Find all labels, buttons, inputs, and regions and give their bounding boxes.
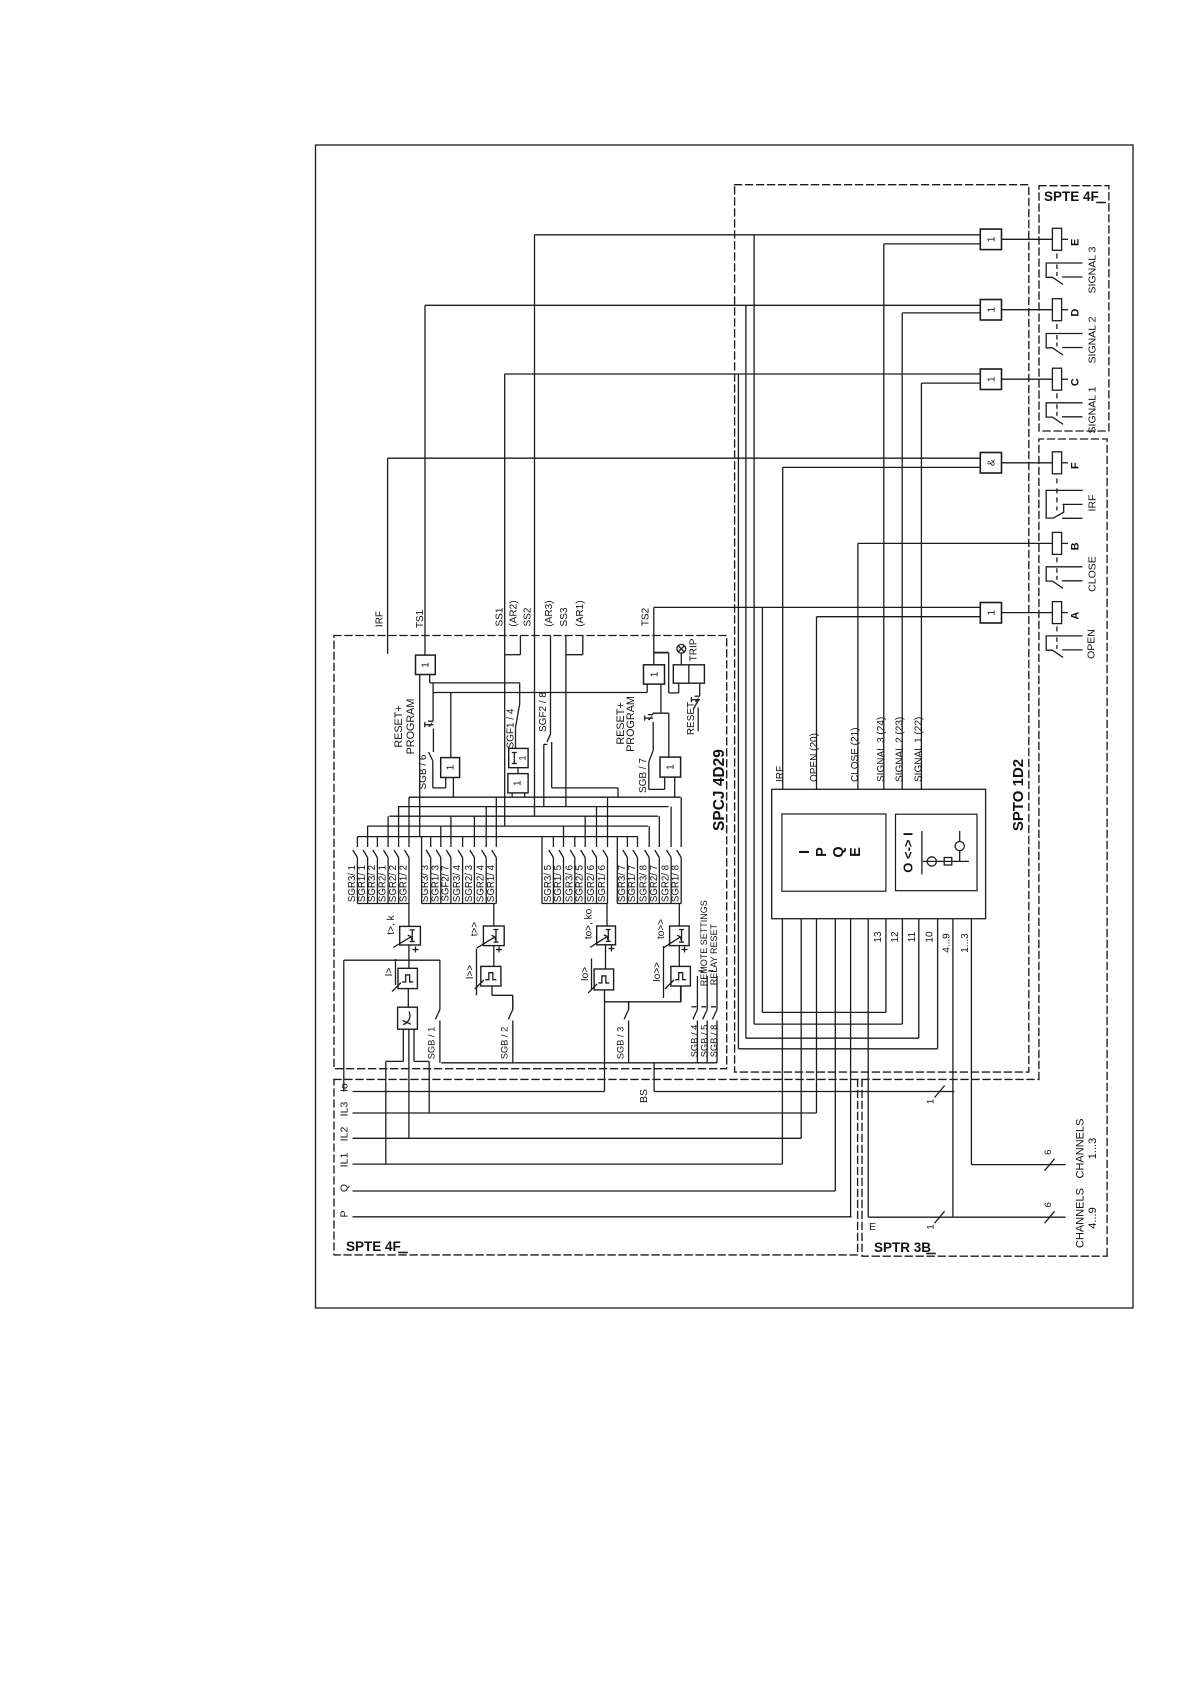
svg-text:OPEN (20): OPEN (20) — [809, 733, 820, 782]
svg-text:SPCJ 4D29: SPCJ 4D29 — [711, 749, 728, 831]
wired join group 3 bottom — [542, 903, 608, 905]
switch SGR3/7 (group 4) with stub, blade, label line — [626, 837, 628, 847]
svg-text:SGR2/ 7: SGR2/ 7 — [649, 865, 660, 902]
SPTO bottom pin to IL3 wire — [816, 919, 818, 1113]
wire riser SS1 down to bus L4 — [504, 374, 506, 826]
wire Io riser from Io wire — [604, 990, 606, 1092]
wires SGF1 block outputs to fan line L1 — [511, 793, 513, 797]
svg-text:SPTE 4F: SPTE 4F — [1044, 189, 1099, 204]
svg-text:SGB / 8: SGB / 8 — [709, 1025, 719, 1058]
block SGF1 minimum pulse (I-beam + 1) — [509, 748, 528, 767]
svg-text:PROGRAM: PROGRAM — [405, 699, 417, 755]
svg-text:to>, ko: to>, ko — [584, 908, 595, 939]
block SPTO object control section O <-> I — [896, 814, 978, 891]
svg-text:C: C — [1070, 378, 1082, 386]
svg-text:1: 1 — [513, 780, 524, 786]
svg-text:Q: Q — [831, 846, 847, 857]
block stage I>> operate time t>> (adjustable) — [483, 926, 504, 946]
wire Io>> chain links — [678, 904, 680, 927]
wire Io> chain links — [606, 904, 608, 927]
svg-text:RESET+: RESET+ — [393, 705, 405, 747]
module boundary SPTO 1D2 (dashed box) — [735, 185, 1029, 1072]
connector F (IRF relay coil) (plug symbol) — [1052, 452, 1061, 474]
svg-text:IL1: IL1 — [339, 1153, 351, 1168]
switch SGB / 2 — [512, 995, 514, 1009]
block stage I> timer (adjustable) — [398, 968, 417, 988]
wire output tap to SGB/3 — [628, 1002, 630, 1010]
object mini-diagram: disconnector square — [944, 858, 952, 866]
module boundary SPTE 4F output board (dashed box, signal relays) — [1039, 186, 1109, 431]
svg-text:SGB / 7: SGB / 7 — [638, 758, 649, 793]
switch SGR2/4 (group 2) with stub, blade, label line — [485, 807, 487, 847]
wire BS to SPTR — [654, 1091, 954, 1093]
svg-text:IRF: IRF — [375, 611, 386, 627]
svg-text:B: B — [1070, 542, 1082, 550]
wire I>> chain links — [493, 904, 495, 927]
wire BS drop from SGB bus — [653, 1063, 655, 1092]
contact SIGNAL 1 (output relay contact) — [1046, 403, 1082, 425]
module boundary SPCJ 4D29 (dashed box) — [334, 636, 727, 1069]
wire SS2 to gate E input 1 — [535, 234, 981, 236]
connector B (CLOSE relay coil) (plug symbol) — [1052, 532, 1061, 554]
svg-text:1: 1 — [649, 671, 660, 677]
svg-text:1: 1 — [666, 764, 677, 770]
wire IRF from SPCJ to gate F input 1 — [388, 457, 981, 459]
block stage Io> operate time to>,ko (adjustable) — [597, 926, 616, 945]
gate U-D OR gate 1 (SIGNAL 2) — [980, 300, 1001, 321]
wire SGB/6 switch to gate — [432, 761, 434, 788]
switch SGR3/4 (group 2) with stub, blade, label line — [462, 837, 464, 847]
gate U-C OR gate 1 (SIGNAL 1) — [980, 369, 1001, 390]
svg-text:SGR2/ 3: SGR2/ 3 — [464, 865, 475, 902]
svg-text:Io>>: Io>> — [652, 962, 663, 982]
switch SGR1/7 (group 4) with stub, blade, label line — [637, 837, 639, 847]
switch SGR2/8 (group 4) with stub, blade, label line — [670, 807, 672, 847]
pushbutton RESET+PROGRAM (right) — [652, 713, 654, 714]
pushbutton RESET (right) — [695, 695, 700, 697]
wired join group 2 bottom — [422, 903, 497, 905]
svg-text:1: 1 — [926, 1099, 937, 1104]
wire IL2 riser — [408, 1029, 410, 1138]
svg-text:REMOTE SETTINGS: REMOTE SETTINGS — [699, 900, 709, 986]
svg-text:SGR1/ 4: SGR1/ 4 — [486, 864, 497, 902]
svg-text:SIGNAL 1 (22): SIGNAL 1 (22) — [914, 717, 925, 782]
block stage I>> timer — [481, 966, 501, 986]
svg-text:P: P — [339, 1210, 351, 1217]
wire SGF2/8 output left branch to fan L2 — [544, 743, 548, 745]
svg-text:SGR1/ 5: SGR1/ 5 — [553, 865, 564, 902]
wire riser IRF stub from SPCJ — [387, 458, 389, 654]
wire TS1 to gate D input 1 — [425, 304, 980, 306]
switch SGR2/1 (group 1) with stub, blade, label line — [387, 816, 389, 847]
switch SGR3/2 (group 1) with stub, blade, label line — [376, 837, 378, 847]
switch SGR1/4 (group 2) with stub, blade, label line — [495, 797, 497, 847]
svg-text:1: 1 — [445, 764, 456, 770]
marker slash 1 on E wire — [935, 1211, 945, 1223]
svg-text:1: 1 — [926, 1224, 937, 1229]
tick marks on SGB/4,5,8 wires — [691, 1006, 696, 1008]
SPTO bottom pin to IL2 wire — [800, 919, 802, 1139]
svg-text:SGB / 6: SGB / 6 — [418, 754, 429, 789]
switch SGF2/7 (group 2) with stub, blade, label line — [450, 816, 452, 847]
svg-text:SGB / 5: SGB / 5 — [699, 1025, 709, 1058]
bus fan line L3 — [389, 815, 658, 817]
wire button stem — [652, 722, 654, 751]
gate U-E OR gate 1 (SIGNAL 3) — [980, 229, 1001, 250]
switch SGR3/8 (group 4) with stub, blade, label line — [648, 826, 650, 847]
switch SGR1/5 (group 3) with stub, blade, label line — [563, 826, 565, 847]
module boundary SPTE 4F input board (dashed box bottom left) — [334, 1079, 858, 1255]
wire TS1 gate pin to fan line L5 — [419, 675, 421, 837]
switch SGB / 3 — [628, 1002, 630, 1010]
wire (AR1) jog to SS3 — [582, 636, 584, 655]
wire IL3 riser — [413, 1029, 415, 1061]
svg-text:SIGNAL 3 (24): SIGNAL 3 (24) — [876, 717, 887, 782]
wire IRF from SPTO to gate F input 2 — [783, 466, 981, 468]
gate SGB/7 OR gate 1 — [660, 757, 681, 777]
svg-text:Io: Io — [339, 1083, 351, 1092]
block stage Io> timer — [594, 969, 614, 990]
svg-text:BS: BS — [638, 1089, 650, 1103]
svg-text:12: 12 — [890, 931, 901, 943]
SPTO bottom pin to P wire — [850, 919, 852, 1217]
switch SGR2/3 (group 2) with stub, blade, label line — [473, 816, 475, 847]
wire gate top input — [450, 693, 452, 758]
switch SGR1/3 (group 2) with stub, blade, label line — [440, 826, 442, 847]
bus fan line L5 — [357, 836, 638, 838]
svg-text:10: 10 — [925, 931, 936, 943]
contact SIGNAL 2 (output relay contact) — [1046, 334, 1082, 356]
SPTO pin 4...9 down to SPTR — [952, 919, 954, 1217]
wire riser SS2 down to bus L3 — [534, 235, 536, 816]
svg-text:t>>: t>> — [470, 922, 481, 937]
svg-text:TS2: TS2 — [641, 607, 652, 626]
switch SGR3/3 (group 2) with stub, blade, label line — [430, 837, 432, 847]
svg-text:6: 6 — [1043, 1150, 1054, 1155]
svg-text:(AR1): (AR1) — [575, 600, 586, 626]
wire BS vertical at left — [343, 960, 345, 1091]
switch SGR2/2 (group 1) with stub, blade, label line — [398, 807, 400, 847]
SPTO bottom pin to Q wire — [834, 919, 836, 1191]
bus fan line L2 — [398, 806, 669, 808]
svg-text:SS2: SS2 — [523, 607, 534, 626]
wire SGB/6 gate output to fan line L1 — [452, 778, 454, 798]
switch SGF2/8 blade — [547, 734, 551, 742]
marker slash 6 on E wire — [1045, 1211, 1055, 1223]
wire TS2 to gate A input 1 — [654, 606, 981, 608]
connector D (SIGNAL 2 relay coil) (plug symbol) — [1052, 299, 1061, 321]
wire bundle riser to SPTO pin 13 — [761, 607, 763, 1012]
svg-text:E: E — [1070, 239, 1082, 246]
svg-text:RESET: RESET — [686, 702, 697, 735]
svg-text:SGR1/ 2: SGR1/ 2 — [399, 865, 410, 902]
wire gate D output to connector D — [1002, 309, 1053, 311]
block stage I> inverse-time characteristic — [398, 1007, 418, 1029]
module boundary SPTE 4F output board part 2 (open dashed box F/B/A) — [1039, 439, 1107, 1256]
svg-text:IRF: IRF — [1087, 495, 1099, 512]
svg-text:I: I — [797, 850, 813, 854]
svg-text:SGR2/ 2: SGR2/ 2 — [388, 865, 399, 902]
svg-text:1...3: 1...3 — [960, 933, 971, 953]
wire (AR2) jog to SS1 — [519, 636, 521, 655]
svg-text:CHANNELS: CHANNELS — [1075, 1119, 1087, 1179]
switch RESET blade — [693, 700, 698, 710]
svg-text:SGR1/ 7: SGR1/ 7 — [627, 865, 638, 902]
svg-text:CLOSE: CLOSE — [1087, 556, 1099, 592]
svg-text:SGR2/ 5: SGR2/ 5 — [575, 865, 586, 902]
wire channels 4...9 / E — [868, 1216, 1065, 1218]
wire button to switch — [432, 729, 434, 753]
switch SGR3/5 (group 3) with stub, blade, label line — [552, 837, 554, 847]
wire SIGNAL3(24) from SPTO to gate E input 2 — [884, 243, 981, 245]
switch RESET+PROGRAM blade (left) — [429, 752, 433, 761]
contact IRF (self-supervision changeover contact) — [1046, 490, 1083, 518]
svg-text:SGR3/ 6: SGR3/ 6 — [564, 865, 575, 902]
wire Io>> output down — [680, 986, 682, 1002]
object mini-diagram: busbar line — [923, 860, 969, 862]
svg-text:A: A — [1070, 612, 1082, 620]
svg-text:1: 1 — [986, 376, 997, 382]
contact OPEN (output relay contact) — [1046, 636, 1082, 658]
block stage Io>> operate time to>> (adjustable) — [670, 926, 690, 946]
svg-text:SIGNAL 2 (23): SIGNAL 2 (23) — [895, 717, 906, 782]
svg-text:SGB / 3: SGB / 3 — [616, 1027, 626, 1060]
svg-text:RELAY RESET: RELAY RESET — [709, 924, 719, 986]
svg-text:P: P — [814, 847, 830, 857]
bus SGB common — [441, 1062, 717, 1064]
wire Io>/Io>> output bar — [605, 1001, 682, 1003]
wire SGB/7 to gate — [648, 762, 650, 790]
svg-text:4...9: 4...9 — [942, 933, 953, 953]
wire gate F output to connector F — [1002, 462, 1053, 464]
svg-text:SIGNAL 3: SIGNAL 3 — [1087, 246, 1099, 293]
wire group 2 left edge line — [421, 837, 423, 904]
svg-text:(AR2): (AR2) — [508, 600, 519, 626]
wire group 4 left edge line — [616, 837, 618, 904]
svg-text:CHANNELS: CHANNELS — [1075, 1188, 1087, 1248]
svg-text:to>>: to>> — [656, 919, 667, 939]
svg-text:IRF: IRF — [775, 766, 786, 782]
wire TS2 branch to trip latch — [654, 652, 669, 654]
switch SGR2/6 (group 3) with stub, blade, label line — [596, 807, 598, 847]
svg-text:SGB / 1: SGB / 1 — [427, 1027, 437, 1060]
svg-text:SS1: SS1 — [495, 607, 506, 626]
svg-text:I>: I> — [384, 968, 395, 977]
wire SGB/7 gate output to fan L1 — [674, 777, 676, 797]
wire SIGNAL2(23) from SPTO to gate D input 2 — [902, 312, 980, 314]
bus fan line L1 — [409, 796, 680, 798]
dashed boundary line between SPCJ/SPTO and bottom boards — [334, 1078, 1039, 1080]
wire riser TS1 down to TS1 gate — [424, 305, 426, 655]
wire gate C output to connector C — [1002, 378, 1053, 380]
svg-text:OPEN: OPEN — [1086, 629, 1098, 659]
svg-text:SGR3/ 4: SGR3/ 4 — [452, 864, 463, 902]
wire bundle riser to SPTO pin 11 — [745, 305, 747, 1038]
wire TS2 gate output to SGB/7 chain — [660, 684, 662, 713]
wired join group 1 bottom — [357, 903, 409, 905]
svg-text:1: 1 — [518, 755, 528, 760]
wire latch reset pin — [699, 683, 701, 696]
wire riser SS3 to fan line L2 — [565, 636, 567, 807]
switch SGR1/8 (group 4) with stub, blade, label line — [680, 797, 682, 847]
contact CLOSE (output relay contact) — [1046, 567, 1082, 589]
svg-text:D: D — [1070, 309, 1082, 317]
svg-text:t>, k: t>, k — [386, 914, 397, 934]
svg-text:O <-> I: O <-> I — [901, 832, 916, 872]
wire SIGNAL1(22) from SPTO to gate C input 2 — [921, 382, 980, 384]
gate U-A OR gate 1 (OPEN) — [980, 603, 1001, 624]
wire group 3 left edge line — [541, 837, 543, 904]
svg-text:TRIP: TRIP — [689, 638, 700, 661]
separator line in O<->I section — [921, 831, 923, 875]
block stage I> operate time t>,k (adjustable) — [400, 926, 421, 945]
switch SGR3/1 (group 1) with stub, blade, label line — [356, 837, 358, 847]
switch SGR1/1 (group 1) with stub, blade, label line — [367, 826, 369, 847]
wire stub (AR3) down to SGF2/8 switch — [550, 636, 552, 735]
svg-text:SS3: SS3 — [559, 607, 570, 626]
switch SGR1/6 (group 3) with stub, blade, label line — [607, 797, 609, 847]
SPTO bottom pin to IL1 wire — [781, 919, 783, 1164]
connector E (SIGNAL 3 relay coil) (plug symbol) — [1052, 228, 1061, 250]
wire channels 1...3 — [971, 1164, 1065, 1166]
wire SGB/7 bar — [653, 712, 669, 714]
wire bundle riser to SPTO pin 12 — [753, 235, 755, 1024]
svg-text:SPTO 1D2: SPTO 1D2 — [1010, 759, 1027, 831]
block trip latch (double box) — [673, 665, 704, 683]
svg-text:11: 11 — [907, 931, 918, 942]
svg-text:SGR3/ 2: SGR3/ 2 — [367, 865, 378, 902]
bus fan line L4 — [367, 825, 648, 827]
svg-text:1: 1 — [986, 236, 997, 242]
svg-text:13: 13 — [873, 931, 884, 943]
block stage Io>> timer — [671, 966, 691, 986]
svg-text:IL2: IL2 — [339, 1127, 351, 1142]
wire TS1 gate pin 2 to SGF1/4 — [429, 675, 431, 683]
svg-text:6: 6 — [1043, 1202, 1054, 1207]
wire TS2 gate pin to RESET+PROGRAM bus — [646, 684, 648, 692]
lamp TRIP indicator — [677, 644, 686, 653]
svg-text:Q: Q — [339, 1184, 351, 1192]
wire SGF2/8 output right branch to fan L1 — [551, 742, 553, 788]
block SGF1 output gate 1 — [508, 774, 528, 793]
block SPTO display section I P Q E — [782, 814, 886, 891]
switch SGB / 1 — [439, 960, 441, 1009]
wire CLOSE from SPTO to connector B — [858, 542, 1053, 544]
wire OPEN(20) from SPTO to gate A input 2 — [817, 616, 981, 618]
wire gate A output to connector A — [1002, 612, 1053, 614]
pushbutton RESET+PROGRAM (left) — [428, 720, 433, 722]
svg-text:SPTE 4F: SPTE 4F — [346, 1239, 401, 1254]
SPTO bottom pin to E wire (SPTR) — [867, 919, 869, 1217]
svg-text:SGR1/ 8: SGR1/ 8 — [671, 865, 682, 902]
svg-text:SGB / 4: SGB / 4 — [690, 1025, 700, 1058]
svg-text:I>>: I>> — [465, 965, 476, 980]
svg-text:&: & — [986, 459, 997, 466]
svg-text:F: F — [1070, 462, 1082, 469]
switch SGR2/7 (group 4) with stub, blade, label line — [658, 816, 660, 847]
svg-text:SIGNAL 1: SIGNAL 1 — [1087, 386, 1099, 433]
svg-text:SGR2/ 6: SGR2/ 6 — [586, 865, 597, 902]
svg-text:IL3: IL3 — [339, 1102, 351, 1117]
svg-text:Io>: Io> — [580, 967, 591, 981]
connector C (SIGNAL 1 relay coil) (plug symbol) — [1052, 368, 1061, 390]
switch SGF1/4 with label — [519, 683, 521, 704]
switch SGB/7 blade — [649, 751, 653, 762]
marker slash 1 on BS wire — [935, 1086, 945, 1098]
object mini-diagram: circuit breaker circle 1 — [927, 857, 936, 866]
svg-text:SGB / 2: SGB / 2 — [500, 1027, 510, 1060]
wire gate E output to connector E — [1002, 238, 1053, 240]
svg-text:SGF2 / 8: SGF2 / 8 — [538, 692, 549, 732]
svg-text:SGR2/ 1: SGR2/ 1 — [378, 865, 389, 902]
wire bundle riser to SPTO pin 10 — [737, 374, 739, 1049]
block SPTO I/O module body — [772, 789, 986, 918]
switch SGR2/5 (group 3) with stub, blade, label line — [584, 816, 586, 847]
switch SGR3/6 (group 3) with stub, blade, label line — [574, 837, 576, 847]
wire SS1 to gate C input 1 — [505, 373, 981, 375]
svg-text:(AR3): (AR3) — [544, 600, 555, 626]
gate TS1 OR gate 1 — [416, 655, 436, 674]
wired join group 4 bottom — [617, 903, 681, 905]
svg-text:CLOSE (21): CLOSE (21) — [850, 728, 861, 782]
wire I> chain links — [408, 904, 410, 927]
svg-text:1: 1 — [986, 306, 997, 312]
connector A (OPEN relay coil) (plug symbol) — [1052, 602, 1061, 624]
contact SIGNAL 3 (output relay contact) — [1046, 263, 1082, 285]
svg-text:4...9: 4...9 — [1087, 1207, 1099, 1228]
svg-text:SGR1/ 6: SGR1/ 6 — [597, 865, 608, 902]
wire RESET+PROGRAM common bus — [432, 683, 434, 721]
module boundary SPTR 3B (dashed box bottom right) — [862, 1079, 1107, 1256]
gate TS2 OR gate 1 — [644, 665, 665, 684]
wire riser TS2 down to TS2 gate — [653, 607, 655, 664]
svg-text:E: E — [869, 1221, 876, 1233]
svg-text:1...3: 1...3 — [1087, 1138, 1099, 1159]
switches SGB/4 SGB/5 SGB/8 with setting stubs — [696, 976, 698, 1010]
SPTO pin 1...3 down to SPTR channels wire — [970, 919, 972, 1165]
svg-text:TS1: TS1 — [415, 609, 426, 628]
svg-text:SPTR 3B: SPTR 3B — [874, 1240, 931, 1255]
svg-text:E: E — [848, 847, 864, 857]
gate SGB/6 OR gate 1 — [441, 758, 460, 778]
svg-text:SGF2/ 7: SGF2/ 7 — [440, 865, 451, 901]
switch SGR1/2 (group 1) with stub, blade, label line — [408, 797, 410, 847]
marker slash 6 on channels 1...3 wire — [1045, 1159, 1055, 1171]
outer border frame of diagram — [316, 145, 1134, 1308]
wire BS bar to SGB/1 — [344, 959, 440, 961]
svg-text:1: 1 — [421, 662, 432, 668]
object mini-diagram: earth switch circle 2 with stub — [955, 842, 964, 851]
svg-text:PROGRAM: PROGRAM — [625, 696, 637, 752]
wire IL1 riser — [402, 1029, 404, 1061]
svg-text:1: 1 — [986, 609, 997, 615]
wire I>> output to SGB/2 — [491, 986, 493, 995]
svg-text:SIGNAL 2: SIGNAL 2 — [1087, 316, 1099, 363]
gate U-F AND gate & (IRF) — [980, 453, 1001, 474]
